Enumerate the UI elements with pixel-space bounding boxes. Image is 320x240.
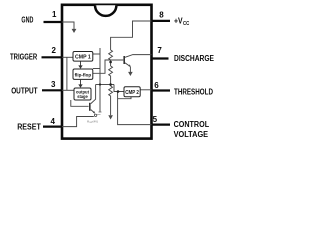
svg-text:CMP 2: CMP 2 [125, 90, 139, 96]
svg-text:8: 8 [159, 10, 164, 19]
svg-text:GND: GND [21, 15, 33, 24]
svg-text:flip-flop: flip-flop [75, 72, 92, 78]
svg-text:stage: stage [77, 94, 88, 99]
svg-text:4: 4 [51, 117, 56, 126]
svg-text:+V: +V [174, 17, 183, 26]
svg-text:1: 1 [52, 10, 57, 19]
svg-text:DISCHARGE: DISCHARGE [174, 54, 215, 63]
svg-text:VOLTAGE: VOLTAGE [174, 130, 209, 139]
svg-text:3: 3 [51, 80, 56, 89]
svg-text:THRESHOLD: THRESHOLD [174, 87, 213, 96]
svg-text:5: 5 [153, 115, 158, 124]
svg-text:CC: CC [183, 21, 190, 27]
svg-text:RESET: RESET [17, 122, 41, 131]
svg-text:TRIGGER: TRIGGER [10, 53, 37, 62]
svg-text:CONTROL: CONTROL [174, 120, 210, 129]
svg-text:6: 6 [154, 81, 159, 90]
svg-text:(4V): (4V) [93, 120, 99, 124]
svg-text:OUTPUT: OUTPUT [11, 87, 37, 96]
svg-text:2: 2 [52, 46, 57, 55]
svg-text:CMP 1: CMP 1 [75, 55, 91, 61]
svg-text:7: 7 [157, 46, 162, 55]
